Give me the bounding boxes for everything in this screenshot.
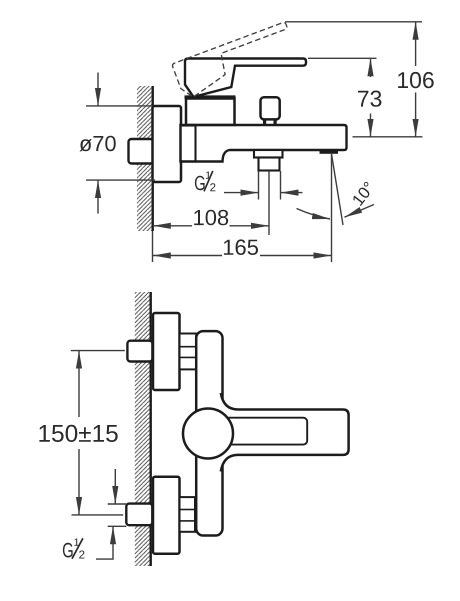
dim 165 right arrow — [260, 255, 332, 257]
dim 73 lower arrow — [370, 114, 372, 137]
dim 108 left arrow — [153, 225, 192, 227]
label 10deg (rotated) — [352, 181, 375, 206]
handle pivot boss (front view) — [183, 409, 233, 459]
dim 73 upper arrow — [370, 58, 372, 77]
handle base line (side view) — [185, 95, 236, 99]
tolerance down arrow — [114, 469, 116, 504]
G1/2 left arrow — [224, 192, 259, 194]
dim o70 top arrow — [97, 73, 99, 106]
bottom escutcheon flange (front view) — [153, 477, 180, 554]
dim 150 bottom extension line — [72, 514, 124, 516]
diverter knob (side view) — [261, 97, 280, 119]
diverter knob feet — [263, 119, 266, 125]
label 150+-15 — [39, 425, 117, 442]
wall section hatching (side view) — [137, 86, 153, 231]
lever handle closed position (side view) — [185, 59, 306, 97]
G1/2 right extension line (side view) — [280, 171, 282, 200]
dim 150 upper arrow — [78, 351, 80, 417]
dim 150 top extension line — [71, 350, 125, 352]
label o70 — [80, 136, 116, 152]
G1/2 right arrow — [281, 192, 303, 194]
escutcheon flange (side view) — [153, 106, 182, 182]
spout axis reference line — [353, 136, 423, 138]
tolerance upper line — [108, 503, 127, 505]
dim 108 right arrow — [230, 225, 270, 227]
lever top extension line — [308, 57, 377, 59]
lever handle arm (front view) — [221, 393, 349, 472]
cartridge collar (side view) — [186, 99, 235, 125]
mixer body column (front view) — [196, 331, 222, 535]
shower outlet G1/2 thread (side view) — [259, 158, 280, 171]
dim o70 bottom extension line — [86, 179, 155, 181]
tolerance lower line — [108, 525, 127, 527]
bottom wall connector (front view) — [126, 504, 152, 526]
angle arc right arrow — [345, 205, 375, 218]
label 108 — [194, 210, 228, 226]
spout angle line 10deg — [332, 154, 344, 225]
union nut (side view) — [181, 126, 196, 162]
shower outlet flange (side view) — [254, 150, 283, 158]
G1/2 leader with arrow (front view) — [96, 526, 113, 559]
label 106 — [398, 72, 434, 88]
top wall connector (front view) — [127, 341, 152, 362]
label G1/2 (front view) — [63, 538, 85, 558]
wall union connector (side view) — [129, 139, 154, 164]
dim 150 lower arrow — [78, 449, 80, 515]
wall section hatching (front view) — [135, 292, 151, 566]
dim 106 lower arrow — [415, 93, 417, 137]
outlet centre extension line — [268, 171, 270, 235]
label G1/2 (side view) — [195, 171, 216, 191]
mixer body and spout (side view) — [181, 125, 347, 162]
wall face line (side view) — [151, 86, 153, 231]
bottom union nut (front view) — [180, 497, 196, 532]
dim 165 left arrow — [153, 255, 222, 257]
open handle reference line — [285, 21, 422, 23]
wall face line (front view) — [149, 292, 151, 566]
handle recess (front view) — [225, 418, 308, 445]
lever handle open position (dashed) — [172, 22, 299, 100]
spout aerator lip — [320, 150, 339, 154]
angle arc left arrow — [297, 209, 331, 220]
dim 106 upper arrow — [415, 22, 417, 66]
label 73 — [358, 91, 381, 107]
label 165 — [224, 239, 258, 255]
spout tip extension line — [331, 154, 333, 262]
dim o70 top extension line — [86, 105, 153, 107]
top escutcheon flange (front view) — [153, 313, 180, 390]
top union nut (front view) — [180, 334, 197, 370]
G1/2 left extension line (side view) — [258, 171, 260, 200]
dim o70 bottom arrow — [97, 180, 99, 214]
wall extension line — [152, 231, 154, 262]
